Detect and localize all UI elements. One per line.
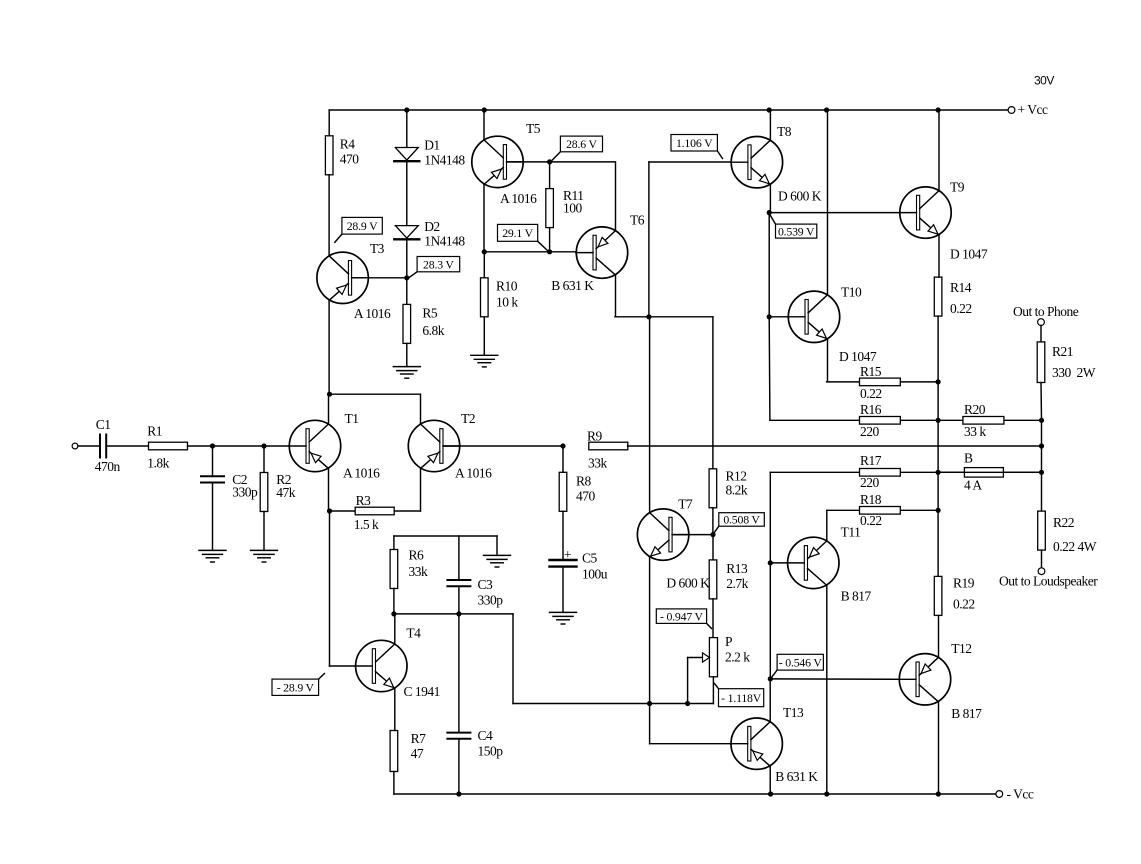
svg-text:D2: D2 bbox=[424, 219, 440, 234]
svg-text:R12: R12 bbox=[726, 469, 747, 484]
svg-text:R19: R19 bbox=[953, 576, 975, 591]
svg-text:C5: C5 bbox=[582, 551, 598, 566]
svg-text:0.22: 0.22 bbox=[953, 597, 975, 612]
svg-text:C 1941: C 1941 bbox=[404, 684, 440, 699]
svg-text:R1: R1 bbox=[147, 424, 162, 439]
svg-text:10 k: 10 k bbox=[496, 295, 518, 310]
svg-text:T12: T12 bbox=[951, 641, 971, 656]
svg-text:0.539 V: 0.539 V bbox=[778, 224, 815, 238]
svg-text:R18: R18 bbox=[860, 492, 882, 507]
svg-text:0.22 4W: 0.22 4W bbox=[1053, 539, 1097, 554]
svg-text:T4: T4 bbox=[406, 626, 421, 641]
svg-text:C1: C1 bbox=[96, 417, 111, 432]
svg-text:- 1.118V: - 1.118V bbox=[721, 691, 762, 705]
svg-text:1N4148: 1N4148 bbox=[424, 153, 465, 168]
svg-text:2.2 k: 2.2 k bbox=[725, 650, 750, 665]
svg-text:0.22: 0.22 bbox=[860, 513, 882, 528]
svg-text:T7: T7 bbox=[678, 497, 693, 512]
svg-text:220: 220 bbox=[860, 424, 880, 439]
svg-text:33k: 33k bbox=[588, 456, 608, 471]
svg-text:T11: T11 bbox=[841, 525, 861, 540]
svg-text:C3: C3 bbox=[478, 577, 494, 592]
svg-text:4 A: 4 A bbox=[964, 478, 982, 493]
svg-text:D 1047: D 1047 bbox=[839, 349, 877, 364]
svg-text:33 k: 33 k bbox=[964, 424, 986, 439]
svg-text:T8: T8 bbox=[777, 124, 792, 139]
svg-text:- 0.947 V: - 0.947 V bbox=[660, 609, 704, 623]
svg-text:R22: R22 bbox=[1053, 515, 1074, 530]
svg-text:B 817: B 817 bbox=[841, 589, 872, 604]
svg-text:47: 47 bbox=[411, 746, 424, 761]
svg-text:1N4148: 1N4148 bbox=[424, 234, 465, 249]
svg-text:T10: T10 bbox=[841, 285, 862, 300]
svg-text:B 817: B 817 bbox=[951, 706, 982, 721]
svg-text:330p: 330p bbox=[478, 593, 504, 608]
svg-text:R16: R16 bbox=[860, 402, 882, 417]
svg-text:28.3 V: 28.3 V bbox=[423, 257, 454, 271]
svg-text:47k: 47k bbox=[276, 485, 296, 500]
svg-text:T9: T9 bbox=[950, 180, 965, 195]
svg-text:T3: T3 bbox=[370, 241, 385, 256]
svg-text:R9: R9 bbox=[587, 429, 603, 444]
svg-text:B: B bbox=[964, 451, 973, 466]
svg-text:R3: R3 bbox=[356, 493, 372, 508]
svg-text:A 1016: A 1016 bbox=[455, 466, 492, 481]
svg-text:D 600 K: D 600 K bbox=[666, 576, 710, 591]
svg-text:0.22: 0.22 bbox=[950, 301, 972, 316]
svg-text:R20: R20 bbox=[964, 402, 986, 417]
svg-text:470: 470 bbox=[340, 152, 360, 167]
svg-text:1.106 V: 1.106 V bbox=[676, 136, 713, 150]
svg-text:100u: 100u bbox=[582, 567, 608, 582]
svg-text:330 2W: 330 2W bbox=[1052, 365, 1096, 380]
svg-text:330p: 330p bbox=[232, 485, 258, 500]
svg-text:+: + bbox=[564, 547, 571, 562]
svg-text:2.7k: 2.7k bbox=[726, 576, 748, 591]
svg-text:B 631 K: B 631 K bbox=[551, 278, 594, 293]
svg-text:B 631 K: B 631 K bbox=[775, 769, 818, 784]
svg-text:R4: R4 bbox=[340, 137, 356, 152]
svg-text:- Vcc: - Vcc bbox=[1007, 787, 1034, 802]
svg-text:1.8k: 1.8k bbox=[147, 456, 169, 471]
svg-text:T13: T13 bbox=[783, 705, 804, 720]
svg-text:8.2k: 8.2k bbox=[726, 483, 748, 498]
svg-text:T2: T2 bbox=[461, 411, 475, 426]
svg-text:R13: R13 bbox=[726, 561, 748, 576]
svg-text:R7: R7 bbox=[411, 731, 427, 746]
svg-text:T6: T6 bbox=[630, 213, 645, 228]
svg-text:6.8k: 6.8k bbox=[422, 323, 444, 338]
svg-text:470n: 470n bbox=[95, 459, 121, 474]
svg-text:- 28.9 V: - 28.9 V bbox=[277, 680, 315, 694]
svg-text:29.1 V: 29.1 V bbox=[502, 226, 533, 240]
svg-text:A 1016: A 1016 bbox=[343, 466, 380, 481]
svg-text:100: 100 bbox=[563, 201, 583, 216]
svg-text:28.6 V: 28.6 V bbox=[566, 137, 597, 151]
svg-text:1.5 k: 1.5 k bbox=[354, 517, 379, 532]
svg-text:R10: R10 bbox=[496, 279, 518, 294]
svg-text:D1: D1 bbox=[424, 138, 440, 153]
svg-text:0.22: 0.22 bbox=[860, 386, 882, 401]
svg-text:Out to Phone: Out to Phone bbox=[1013, 304, 1079, 319]
svg-text:30V: 30V bbox=[1034, 74, 1054, 88]
svg-text:C4: C4 bbox=[478, 728, 494, 743]
svg-text:- 0.546 V: - 0.546 V bbox=[779, 655, 823, 669]
svg-text:R14: R14 bbox=[950, 280, 972, 295]
svg-text:R5: R5 bbox=[422, 306, 438, 321]
svg-text:R8: R8 bbox=[576, 474, 592, 489]
svg-text:470: 470 bbox=[576, 489, 596, 504]
svg-text:R15: R15 bbox=[860, 364, 882, 379]
svg-text:Out to Loudspeaker: Out to Loudspeaker bbox=[999, 574, 1098, 589]
svg-text:T5: T5 bbox=[526, 121, 541, 136]
svg-text:A 1016: A 1016 bbox=[354, 306, 391, 321]
svg-text:R21: R21 bbox=[1052, 344, 1073, 359]
svg-text:A 1016: A 1016 bbox=[500, 191, 537, 206]
svg-text:P: P bbox=[725, 634, 732, 649]
svg-text:D 600 K: D 600 K bbox=[778, 189, 822, 204]
svg-text:R17: R17 bbox=[860, 453, 882, 468]
svg-text:R6: R6 bbox=[409, 548, 425, 563]
svg-text:28.9 V: 28.9 V bbox=[347, 219, 378, 233]
svg-text:0.508 V: 0.508 V bbox=[723, 513, 760, 527]
svg-text:220: 220 bbox=[860, 475, 880, 490]
svg-text:150p: 150p bbox=[478, 744, 504, 759]
svg-text:T1: T1 bbox=[345, 411, 359, 426]
svg-text:33k: 33k bbox=[409, 564, 429, 579]
svg-text:D 1047: D 1047 bbox=[950, 247, 988, 262]
svg-text:+ Vcc: + Vcc bbox=[1018, 102, 1048, 117]
